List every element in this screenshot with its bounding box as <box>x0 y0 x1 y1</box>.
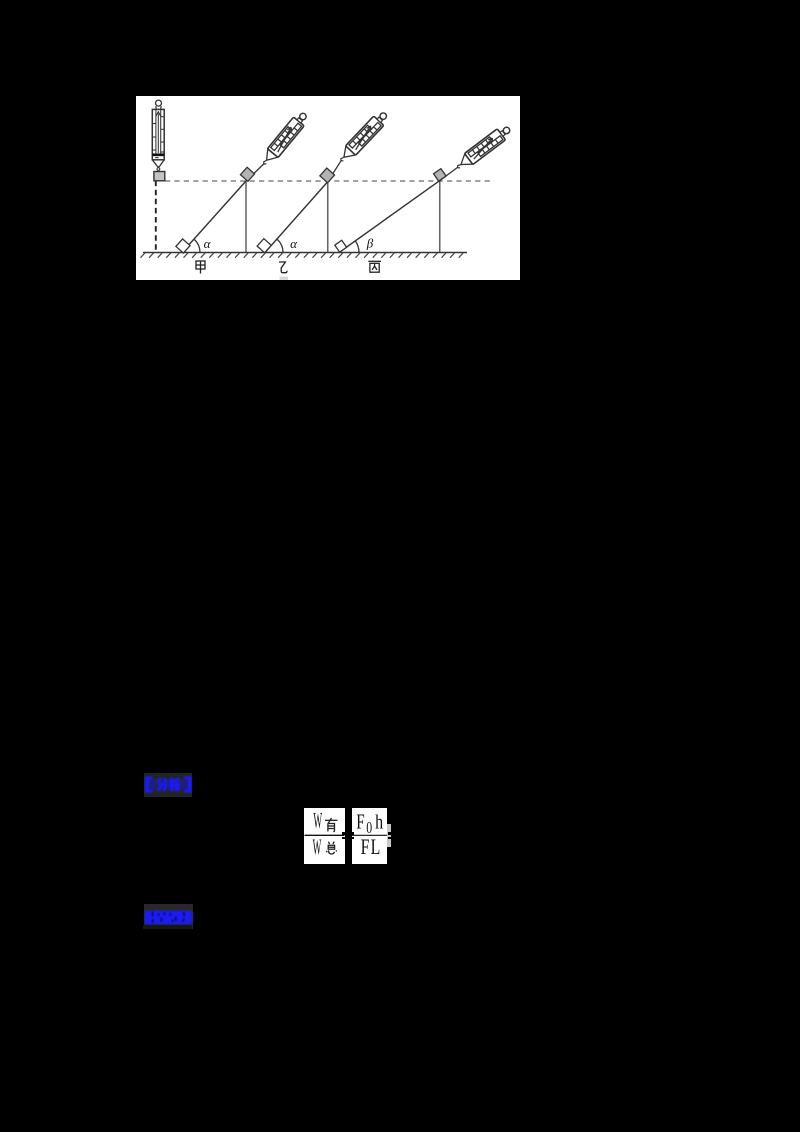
svg-text:α: α <box>204 236 212 251</box>
formula fraction W_you / W_zong <box>304 808 345 864</box>
incline bing line <box>339 181 440 253</box>
svg-text:α: α <box>290 236 298 251</box>
label bing <box>368 261 381 272</box>
vertical scale funnel <box>152 160 164 167</box>
white block yi <box>257 239 271 253</box>
dashed vertical line under left scale <box>155 181 157 253</box>
drop line jia <box>245 181 247 253</box>
spring scale yi <box>336 109 390 165</box>
ground <box>143 252 467 254</box>
right bracket <box>184 778 190 792</box>
vertical scale pointer <box>157 114 159 154</box>
vertical scale ring <box>156 100 162 106</box>
gray block jia <box>240 167 254 181</box>
svg-text:0: 0 <box>366 819 372 837</box>
vertical scale channel edges <box>155 110 157 154</box>
incline jia line <box>182 181 246 253</box>
dashed horizontal reference line <box>165 180 492 182</box>
vertical spring scale <box>152 100 164 170</box>
label yi <box>279 262 287 273</box>
spring scale bing <box>454 123 514 173</box>
vertical scale right ticks <box>161 116 165 118</box>
vertical scale zero band <box>152 153 164 156</box>
white block jia <box>176 239 190 253</box>
equals sign 1 <box>298 832 311 835</box>
svg-text:L: L <box>371 836 381 860</box>
gray block bing <box>434 169 447 182</box>
vertical scale body <box>152 109 164 159</box>
gray smudge under label yi <box>280 277 289 280</box>
gray block yi <box>320 168 335 183</box>
answer label (blue) <box>144 904 193 929</box>
cord jia <box>246 164 264 182</box>
left bracket <box>146 778 152 792</box>
angle arc jia <box>194 239 200 252</box>
vertical scale neck <box>156 106 161 109</box>
vertical scale hook <box>157 168 160 171</box>
svg-text:β: β <box>366 236 374 251</box>
angle arc yi <box>277 239 283 253</box>
equals sign 2 <box>342 832 355 835</box>
svg-text:h: h <box>375 811 383 833</box>
label jia <box>196 261 205 274</box>
cord yi <box>328 160 342 181</box>
xi <box>169 778 180 791</box>
physics diagram image (white panel) <box>136 96 520 280</box>
cord bing <box>440 167 458 181</box>
formula fraction F0h / FL <box>352 808 387 864</box>
gray strip right of formula <box>387 824 391 846</box>
svg-text:W: W <box>313 808 322 833</box>
fen <box>157 778 167 791</box>
spring scale jia <box>259 110 311 168</box>
arrow mark right <box>388 832 393 835</box>
vertical scale left ticks <box>152 123 156 125</box>
svg-text:F: F <box>356 810 364 833</box>
analysis label (blue) <box>144 773 193 797</box>
hanging gray block <box>154 172 165 181</box>
angle arc bing <box>355 241 359 253</box>
svg-text:F: F <box>361 836 370 860</box>
ground hatching <box>141 253 464 258</box>
white block bing <box>335 240 347 252</box>
incline yi line <box>265 182 328 253</box>
drop line bing <box>439 181 441 253</box>
svg-text:W: W <box>313 835 322 860</box>
drop line yi <box>327 182 329 253</box>
